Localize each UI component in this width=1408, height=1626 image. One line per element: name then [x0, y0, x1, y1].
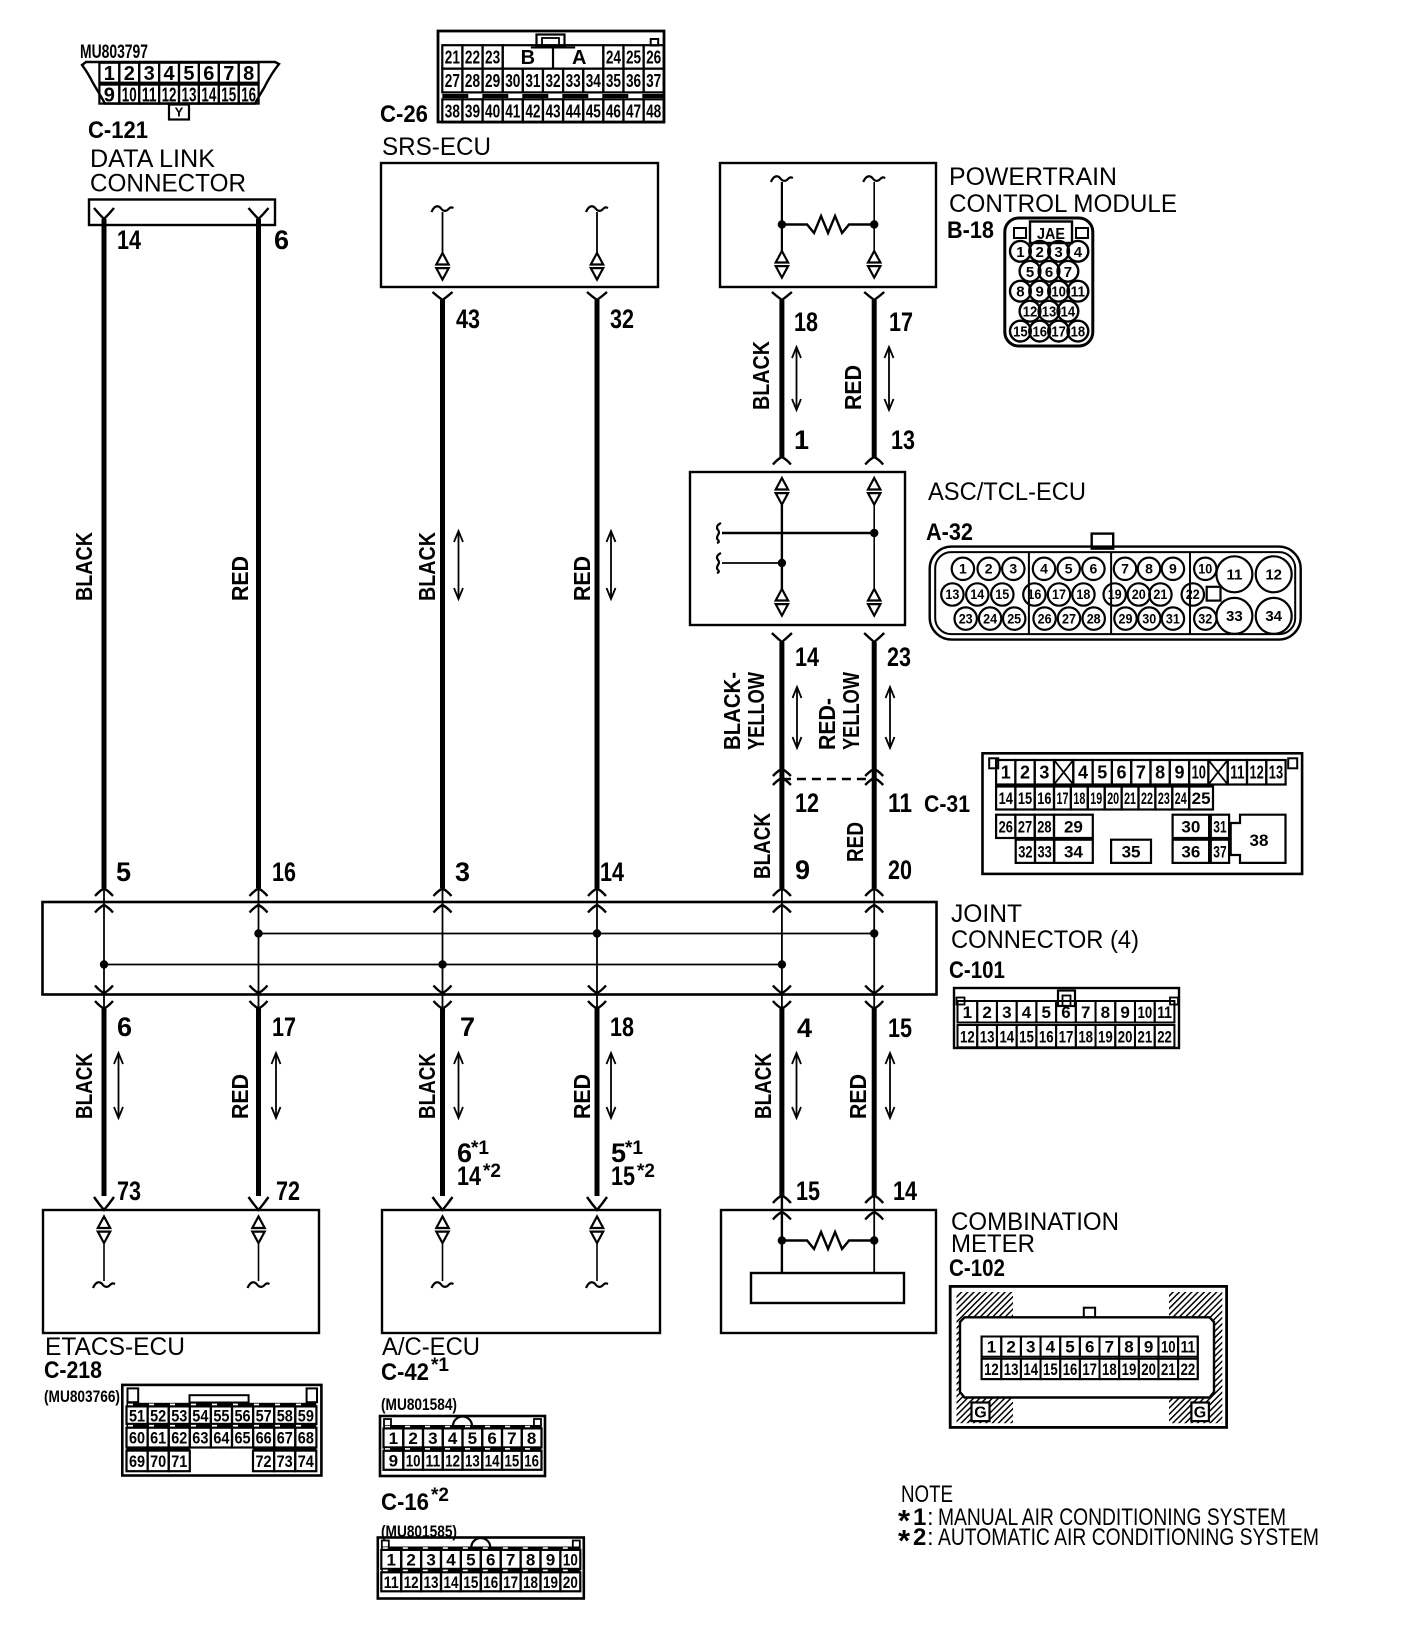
svg-text:10: 10: [1137, 1003, 1152, 1022]
svg-text:27: 27: [445, 71, 460, 91]
svg-text:2: 2: [124, 63, 135, 85]
svg-text:BLACK-: BLACK-: [719, 672, 745, 750]
svg-text:52: 52: [150, 1406, 166, 1425]
svg-text:18: 18: [610, 1012, 634, 1042]
svg-text:15: 15: [995, 586, 1009, 602]
svg-text:RED: RED: [569, 1074, 595, 1119]
svg-text:16: 16: [1039, 1027, 1054, 1046]
svg-text:70: 70: [150, 1452, 166, 1471]
svg-text:2: 2: [1006, 1338, 1015, 1357]
svg-text:23: 23: [1158, 789, 1170, 808]
svg-text:56: 56: [235, 1406, 251, 1425]
svg-text:33: 33: [1226, 608, 1243, 625]
svg-text:20: 20: [563, 1573, 578, 1592]
svg-text:11: 11: [1157, 1003, 1172, 1022]
svg-text:8: 8: [243, 63, 254, 85]
svg-text:1: 1: [959, 561, 967, 577]
svg-text:4: 4: [1074, 244, 1083, 261]
svg-text:72: 72: [276, 1176, 300, 1206]
svg-text:62: 62: [171, 1429, 187, 1448]
svg-text:*1: *1: [625, 1138, 643, 1159]
svg-text:43: 43: [456, 304, 480, 334]
svg-text:46: 46: [606, 101, 621, 121]
svg-text:8: 8: [527, 1429, 536, 1448]
svg-text:67: 67: [277, 1429, 293, 1448]
svg-text:13: 13: [465, 1451, 480, 1470]
svg-text:*1: *1: [471, 1138, 489, 1159]
svg-text:17: 17: [1082, 1360, 1097, 1379]
svg-text:SRS-ECU: SRS-ECU: [382, 133, 491, 161]
svg-text:27: 27: [1062, 610, 1076, 626]
svg-text:9: 9: [389, 1451, 398, 1470]
svg-text:CONNECTOR: CONNECTOR: [90, 170, 246, 198]
svg-text:63: 63: [192, 1429, 208, 1448]
svg-text:5: 5: [1065, 1338, 1074, 1357]
svg-text:34: 34: [1265, 608, 1282, 625]
svg-text:16: 16: [1027, 586, 1041, 602]
svg-text:54: 54: [192, 1406, 209, 1425]
svg-text:3: 3: [426, 1551, 435, 1570]
svg-text:RED-: RED-: [814, 698, 840, 750]
svg-text:39: 39: [465, 101, 480, 121]
svg-text:17: 17: [889, 307, 913, 337]
svg-text:42: 42: [525, 101, 540, 121]
svg-text:5: 5: [468, 1429, 477, 1448]
svg-text:Y: Y: [175, 105, 184, 120]
svg-text:6: 6: [487, 1429, 496, 1448]
svg-text:7: 7: [460, 1012, 475, 1042]
svg-text:AUTOMATIC AIR CONDITIONING SYS: AUTOMATIC AIR CONDITIONING SYSTEM: [938, 1524, 1319, 1551]
svg-text:29: 29: [1064, 817, 1083, 836]
svg-text:12: 12: [404, 1573, 419, 1592]
svg-text:11: 11: [888, 788, 912, 818]
svg-text:9: 9: [1144, 1338, 1153, 1357]
svg-text:32: 32: [1198, 610, 1212, 626]
svg-text:12: 12: [1023, 304, 1038, 321]
svg-text:15: 15: [1043, 1360, 1058, 1379]
svg-text:POWERTRAIN: POWERTRAIN: [949, 163, 1117, 191]
svg-text:20: 20: [1141, 1360, 1156, 1379]
svg-text:15: 15: [1013, 324, 1028, 341]
svg-text:10: 10: [1192, 763, 1206, 783]
svg-text:15: 15: [796, 1176, 820, 1206]
svg-text:6: 6: [274, 225, 289, 255]
svg-text:RED: RED: [842, 822, 868, 862]
svg-text:5: 5: [1065, 561, 1073, 577]
svg-text:23: 23: [485, 47, 500, 67]
svg-text:6: 6: [1117, 763, 1127, 783]
svg-text:29: 29: [1119, 610, 1133, 626]
svg-text:7: 7: [1105, 1338, 1114, 1357]
svg-text:20: 20: [1107, 789, 1119, 808]
svg-text:60: 60: [129, 1429, 145, 1448]
svg-text:BLACK: BLACK: [71, 532, 97, 601]
svg-text:4: 4: [1046, 1338, 1056, 1357]
svg-text:26: 26: [646, 47, 661, 67]
svg-text:35: 35: [606, 71, 621, 91]
svg-text:MU803797: MU803797: [80, 42, 148, 63]
svg-text:15: 15: [505, 1451, 520, 1470]
svg-text:36: 36: [626, 71, 641, 91]
svg-text:2: 2: [913, 1524, 926, 1551]
svg-text:METER: METER: [951, 1230, 1035, 1258]
svg-text:66: 66: [256, 1429, 272, 1448]
svg-text:9: 9: [1036, 284, 1044, 301]
svg-text:27: 27: [1018, 817, 1032, 836]
svg-text:33: 33: [1038, 842, 1052, 861]
svg-text:12: 12: [162, 84, 177, 106]
svg-text:1: 1: [1001, 763, 1011, 783]
svg-text:33: 33: [566, 71, 581, 91]
svg-text:3: 3: [1039, 763, 1049, 783]
svg-text:22: 22: [1181, 1360, 1196, 1379]
svg-text:7: 7: [223, 63, 234, 85]
svg-text:7: 7: [507, 1429, 516, 1448]
svg-text:8: 8: [1101, 1003, 1110, 1022]
svg-text:11: 11: [1181, 1338, 1196, 1357]
svg-text:69: 69: [129, 1452, 145, 1471]
svg-text:14: 14: [1061, 304, 1076, 321]
svg-text:C-26: C-26: [380, 101, 428, 128]
svg-text:17: 17: [1052, 586, 1066, 602]
svg-text:16: 16: [272, 857, 296, 887]
svg-text:11: 11: [1071, 284, 1086, 301]
svg-text:C-42: C-42: [381, 1359, 429, 1386]
svg-text:17: 17: [503, 1573, 518, 1592]
svg-text:19: 19: [1122, 1360, 1137, 1379]
svg-text:24: 24: [983, 610, 997, 626]
svg-text:18: 18: [1102, 1360, 1117, 1379]
svg-text:16: 16: [524, 1451, 539, 1470]
svg-text:4: 4: [797, 1013, 812, 1043]
svg-text:CONNECTOR (4): CONNECTOR (4): [951, 926, 1139, 954]
svg-text:15: 15: [888, 1013, 912, 1043]
svg-text:7: 7: [1121, 561, 1129, 577]
svg-text:10: 10: [1198, 561, 1212, 577]
svg-text:6: 6: [203, 63, 214, 85]
svg-text:14: 14: [893, 1176, 917, 1206]
svg-text:*2: *2: [637, 1161, 655, 1182]
svg-text:26: 26: [999, 817, 1013, 836]
svg-text:B-18: B-18: [947, 217, 994, 244]
svg-text:A: A: [572, 47, 586, 69]
svg-text:RED: RED: [845, 1074, 871, 1119]
svg-text:*2: *2: [431, 1485, 449, 1506]
svg-text:5: 5: [116, 857, 131, 887]
svg-text:55: 55: [213, 1406, 229, 1425]
svg-text:74: 74: [298, 1452, 315, 1471]
svg-text:8: 8: [1145, 561, 1153, 577]
svg-text:BLACK: BLACK: [748, 341, 774, 410]
svg-text:15: 15: [1019, 1027, 1034, 1046]
svg-text:11: 11: [142, 84, 157, 106]
svg-text:B: B: [521, 47, 535, 69]
svg-text:12: 12: [960, 1027, 975, 1046]
svg-text:31: 31: [1166, 610, 1180, 626]
svg-text:5: 5: [1097, 763, 1107, 783]
svg-text:ASC/TCL-ECU: ASC/TCL-ECU: [928, 478, 1086, 506]
svg-text:13: 13: [1004, 1360, 1019, 1379]
svg-text:13: 13: [980, 1027, 995, 1046]
svg-text:22: 22: [1141, 789, 1153, 808]
svg-text:13: 13: [945, 586, 959, 602]
svg-text:73: 73: [277, 1452, 293, 1471]
svg-text:18: 18: [1071, 324, 1086, 341]
svg-text:YELLOW: YELLOW: [743, 672, 769, 750]
svg-text:73: 73: [117, 1176, 141, 1206]
svg-text:10: 10: [1051, 284, 1066, 301]
svg-text:14: 14: [999, 1027, 1014, 1046]
svg-text:9: 9: [546, 1551, 555, 1570]
svg-text:3: 3: [144, 63, 155, 85]
svg-text:19: 19: [543, 1573, 558, 1592]
svg-text:13: 13: [1269, 763, 1283, 783]
svg-text:32: 32: [545, 71, 560, 91]
svg-text:8: 8: [1124, 1338, 1133, 1357]
svg-text:19: 19: [1108, 586, 1122, 602]
svg-text:10: 10: [563, 1551, 578, 1570]
svg-text:29: 29: [485, 71, 500, 91]
svg-text:25: 25: [626, 47, 641, 67]
svg-text:11: 11: [1230, 763, 1244, 783]
svg-text:57: 57: [256, 1406, 272, 1425]
svg-text:14: 14: [117, 225, 141, 255]
svg-text::: :: [927, 1524, 934, 1551]
svg-text:14: 14: [970, 586, 984, 602]
svg-text:9: 9: [1120, 1003, 1129, 1022]
svg-text:21: 21: [1161, 1360, 1176, 1379]
svg-text:13: 13: [182, 84, 197, 106]
svg-text:37: 37: [1213, 842, 1226, 861]
svg-text:24: 24: [1175, 789, 1187, 808]
svg-text:C-218: C-218: [44, 1357, 102, 1384]
svg-text:RED: RED: [227, 1074, 253, 1119]
svg-text:14: 14: [485, 1451, 500, 1470]
svg-text:18: 18: [1078, 1027, 1093, 1046]
svg-text:7: 7: [1081, 1003, 1090, 1022]
svg-text:8: 8: [1016, 284, 1024, 301]
svg-text:16: 16: [241, 84, 256, 106]
svg-text:38: 38: [445, 101, 460, 121]
svg-text:25: 25: [1192, 789, 1211, 808]
svg-text:C-101: C-101: [949, 957, 1005, 984]
svg-text:6: 6: [1085, 1338, 1094, 1357]
svg-text:1: 1: [794, 425, 809, 455]
svg-text:28: 28: [1037, 817, 1051, 836]
svg-text:*: *: [898, 1523, 911, 1558]
svg-text:7: 7: [1136, 763, 1146, 783]
svg-text:61: 61: [150, 1429, 166, 1448]
svg-text:18: 18: [1076, 586, 1090, 602]
svg-text:4: 4: [446, 1551, 456, 1570]
svg-text:10: 10: [122, 84, 137, 106]
svg-text:28: 28: [465, 71, 480, 91]
svg-text:7: 7: [1064, 264, 1072, 281]
svg-text:12: 12: [984, 1360, 999, 1379]
svg-text:10: 10: [1161, 1338, 1176, 1357]
svg-text:59: 59: [298, 1406, 314, 1425]
svg-text:24: 24: [606, 47, 621, 67]
svg-text:53: 53: [171, 1406, 187, 1425]
svg-text:1: 1: [387, 1551, 396, 1570]
svg-text:5: 5: [1042, 1003, 1051, 1022]
svg-text:16: 16: [1032, 324, 1047, 341]
svg-text:10: 10: [406, 1451, 421, 1470]
svg-text:A-32: A-32: [926, 519, 973, 546]
svg-text:*1: *1: [431, 1355, 449, 1376]
svg-text:BLACK: BLACK: [750, 1053, 776, 1119]
svg-text:5: 5: [183, 63, 194, 85]
svg-text:5: 5: [1026, 264, 1034, 281]
svg-text:12: 12: [1265, 566, 1282, 583]
svg-text:5: 5: [466, 1551, 475, 1570]
svg-text:C-16: C-16: [381, 1489, 429, 1516]
svg-text:RED: RED: [227, 556, 253, 601]
svg-text:3: 3: [1009, 561, 1017, 577]
svg-text:72: 72: [256, 1452, 272, 1471]
svg-text:BLACK: BLACK: [71, 1053, 97, 1119]
svg-text:8: 8: [1155, 763, 1165, 783]
svg-text:1: 1: [389, 1429, 398, 1448]
svg-text:15: 15: [611, 1161, 635, 1191]
svg-text:16: 16: [1037, 789, 1051, 808]
svg-text:2: 2: [406, 1551, 415, 1570]
svg-text:1: 1: [987, 1338, 996, 1357]
svg-text:38: 38: [1250, 831, 1269, 850]
svg-text:3: 3: [1002, 1003, 1011, 1022]
svg-text:21: 21: [1137, 1027, 1152, 1046]
svg-text:41: 41: [505, 101, 520, 121]
svg-text:16: 16: [1063, 1360, 1078, 1379]
svg-text:30: 30: [1142, 610, 1156, 626]
svg-text:BLACK: BLACK: [414, 1053, 440, 1119]
svg-text:3: 3: [1026, 1338, 1035, 1357]
svg-text:40: 40: [485, 101, 500, 121]
svg-text:19: 19: [1090, 789, 1102, 808]
svg-text:21: 21: [1124, 789, 1136, 808]
svg-text:(MU803766): (MU803766): [44, 1387, 120, 1406]
svg-text:20: 20: [888, 855, 912, 885]
svg-text:23: 23: [887, 642, 911, 672]
svg-text:30: 30: [505, 71, 520, 91]
svg-text:35: 35: [1122, 842, 1141, 861]
svg-text:9: 9: [1169, 561, 1177, 577]
svg-text:14: 14: [600, 857, 624, 887]
svg-text:2: 2: [985, 561, 993, 577]
svg-text:25: 25: [1007, 610, 1021, 626]
svg-text:4: 4: [448, 1429, 458, 1448]
svg-text:*2: *2: [483, 1161, 501, 1182]
svg-text:2: 2: [408, 1429, 417, 1448]
svg-text:14: 14: [999, 789, 1014, 808]
svg-text:44: 44: [566, 101, 581, 121]
svg-text:48: 48: [646, 101, 661, 121]
svg-text:22: 22: [1157, 1027, 1172, 1046]
svg-text:BLACK: BLACK: [414, 532, 440, 601]
svg-text:36: 36: [1181, 842, 1200, 861]
svg-text:4: 4: [163, 63, 175, 85]
svg-text:21: 21: [1153, 586, 1167, 602]
svg-text:12: 12: [1250, 763, 1264, 783]
svg-text:32: 32: [1018, 842, 1032, 861]
svg-text:12: 12: [445, 1451, 460, 1470]
svg-text:RED: RED: [840, 365, 866, 410]
svg-text:YELLOW: YELLOW: [838, 672, 864, 750]
svg-text:31: 31: [1213, 817, 1226, 836]
svg-text:8: 8: [526, 1551, 535, 1570]
svg-text:1: 1: [1016, 244, 1024, 261]
svg-text:11: 11: [384, 1573, 399, 1592]
svg-text:C-31: C-31: [924, 791, 970, 818]
svg-text:15: 15: [463, 1573, 478, 1592]
svg-text:15: 15: [1018, 789, 1032, 808]
svg-text:64: 64: [213, 1429, 230, 1448]
svg-text:9: 9: [795, 855, 810, 885]
svg-text:20: 20: [1118, 1027, 1133, 1046]
svg-text:18: 18: [1073, 789, 1085, 808]
svg-text:7: 7: [506, 1551, 515, 1570]
svg-text:17: 17: [1051, 324, 1066, 341]
svg-text:1: 1: [963, 1003, 972, 1022]
svg-text:RED: RED: [569, 556, 595, 601]
svg-text:22: 22: [1186, 586, 1200, 602]
svg-text:4: 4: [1022, 1003, 1032, 1022]
svg-text:14: 14: [201, 84, 216, 106]
svg-text:18: 18: [794, 307, 818, 337]
svg-text:17: 17: [272, 1012, 296, 1042]
svg-text:2: 2: [1036, 244, 1044, 261]
svg-text:15: 15: [221, 84, 236, 106]
svg-text:30: 30: [1181, 817, 1200, 836]
svg-text:18: 18: [523, 1573, 538, 1592]
svg-text:17: 17: [1059, 1027, 1074, 1046]
svg-text:26: 26: [1038, 610, 1052, 626]
svg-text:34: 34: [586, 71, 601, 91]
svg-text:6: 6: [117, 1012, 132, 1042]
svg-text:6: 6: [1090, 561, 1098, 577]
svg-text:3: 3: [428, 1429, 437, 1448]
svg-text:BLACK: BLACK: [749, 813, 775, 879]
svg-text:13: 13: [891, 425, 915, 455]
svg-text:3: 3: [1054, 244, 1062, 261]
svg-text:CONTROL MODULE: CONTROL MODULE: [949, 190, 1177, 218]
svg-text:4: 4: [1078, 763, 1088, 783]
svg-text:47: 47: [626, 101, 641, 121]
svg-text:(MU801584): (MU801584): [381, 1395, 457, 1414]
svg-text:C-102: C-102: [949, 1255, 1005, 1282]
svg-text:43: 43: [545, 101, 560, 121]
svg-text:65: 65: [235, 1429, 251, 1448]
svg-text:6: 6: [486, 1551, 495, 1570]
svg-text:G: G: [974, 1405, 986, 1422]
svg-text:G: G: [1194, 1405, 1206, 1422]
svg-text:14: 14: [457, 1161, 481, 1191]
svg-text:9: 9: [1174, 763, 1184, 783]
svg-text:58: 58: [277, 1406, 293, 1425]
svg-text:16: 16: [483, 1573, 498, 1592]
svg-text:6: 6: [1045, 264, 1053, 281]
svg-text:6: 6: [1061, 1003, 1070, 1022]
svg-text:19: 19: [1098, 1027, 1113, 1046]
svg-text:28: 28: [1087, 610, 1101, 626]
svg-text:11: 11: [1226, 566, 1242, 583]
svg-text:14: 14: [1023, 1360, 1038, 1379]
svg-text:45: 45: [586, 101, 601, 121]
svg-text:14: 14: [795, 642, 819, 672]
svg-text:JOINT: JOINT: [951, 900, 1022, 928]
svg-text:C-121: C-121: [88, 117, 148, 144]
svg-text:12: 12: [795, 788, 819, 818]
